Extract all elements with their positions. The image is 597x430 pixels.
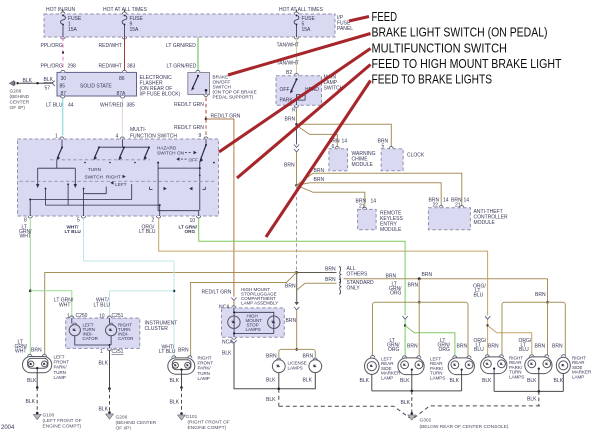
MFS interior: position dashed guides [50,159,150,161]
svg-text:87: 87 [61,91,67,97]
svg-text:30: 30 [61,76,67,82]
svg-text:LAMP: LAMP [572,375,584,380]
svg-text:14: 14 [342,139,348,145]
svg-text:BRN: BRN [285,117,296,123]
annotation line MULTIFUNCTION SWITCH [219,49,371,153]
wire BLK cluster to G206 [99,350,114,419]
node junction BRN modules [295,184,298,187]
wire WHT/LT BLU MFS pin5 down [65,218,175,357]
svg-text:14: 14 [371,199,377,205]
head lamp switch S2 [276,70,322,114]
svg-text:14: 14 [464,198,470,204]
wire ORG/LT BLU MFS pin2 to rear [139,218,488,316]
svg-text:BRN: BRN [314,177,325,183]
wire BLK dashed right rear to bus [527,391,539,406]
wire BRN to clock [297,124,394,149]
svg-text:ORG: ORG [185,229,196,234]
svg-text:BLK: BLK [222,351,232,357]
right front park/turn lamp [159,345,213,381]
MFS interior: lower contacts and buses [29,183,205,216]
svg-text:BRN: BRN [408,283,419,289]
svg-text:MULTI-: MULTI- [130,127,147,133]
lamp left rear side marker [365,355,402,380]
svg-text:BLK: BLK [401,400,411,406]
svg-text:BLK: BLK [44,77,54,83]
svg-text:BRN: BRN [314,168,325,174]
wire BLK dashed left rear to G302 [401,391,412,413]
svg-text:B2: B2 [286,70,292,76]
svg-text:BRN: BRN [284,163,295,169]
wire RED/LT GRN to MFS pin 9 [174,119,206,135]
high mount feed connector NCA [202,290,237,311]
wire BLK license grounds [266,373,315,391]
svg-text:SOLID STATE: SOLID STATE [80,84,112,90]
wire RED/LT GRN branch to high mount [206,113,241,296]
svg-text:BRN: BRN [457,344,468,350]
svg-text:BLK: BLK [99,407,109,413]
high mount ground pin NCA [222,333,237,356]
anti-theft controller module M4 [428,208,508,230]
wire BRN right rear distribution [502,279,565,356]
multifunction switch S3 [18,127,219,224]
remote keyless entry module M3 [358,209,404,233]
svg-text:BRN: BRN [325,267,336,273]
svg-text:87A: 87A [117,91,127,97]
svg-text:C251: C251 [112,349,124,355]
annotation line FEED TO BRAKE LIGHTS [266,81,371,238]
node junction WHT/LT BLU [173,290,176,293]
warning chime module M1 [329,149,376,171]
svg-text:BLK: BLK [99,361,109,367]
svg-text:WHT: WHT [20,234,31,240]
svg-text:OFF: OFF [189,158,199,163]
lamp right turn indicator [106,318,135,341]
svg-text:(BEHIND CENTER: (BEHIND CENTER [116,420,157,426]
svg-text:ONLY: ONLY [347,286,361,292]
svg-text:RED/WHT: RED/WHT [99,43,122,49]
ground bus dashed to G302 (left half) [279,406,410,418]
svg-text:LAMPS: LAMPS [509,375,524,380]
wire BLK left front lamp to G100 [26,373,42,420]
svg-text:LAMPS: LAMPS [430,376,445,381]
wire BRN standard only [297,277,374,294]
svg-text:LT GRN/RED: LT GRN/RED [166,43,196,49]
svg-text:85: 85 [60,83,66,89]
svg-text:I/P FUSE BLOCK): I/P FUSE BLOCK) [140,92,181,98]
svg-text:LAMP ASSEMBLY: LAMP ASSEMBLY [241,300,278,305]
svg-text:R: R [292,108,296,114]
svg-text:BLK: BLK [482,378,492,384]
svg-text:(LEFT FRONT OF: (LEFT FRONT OF [43,418,82,424]
svg-text:ORG: ORG [439,347,451,353]
svg-text:CLUSTER: CLUSTER [145,326,169,332]
svg-text:SWITCH: SWITCH [157,151,176,156]
svg-text:BRN: BRN [31,348,42,354]
svg-text:CLOCK: CLOCK [407,153,425,159]
svg-text:BLK: BLK [303,377,313,383]
svg-text:G206: G206 [116,415,128,421]
wire BLK dashed license to ground bus [266,389,279,407]
svg-text:BLK: BLK [23,78,33,84]
svg-text:RIGHT: RIGHT [106,175,121,180]
svg-text:BLK: BLK [554,378,564,384]
cluster ground wiring [75,336,124,355]
lamp license (right) [309,358,322,373]
wire BRN all others [297,266,369,283]
svg-text:WHT: WHT [59,303,70,309]
annotation texts [372,10,562,87]
wire BRN to anti-theft pin 21 [297,168,470,209]
svg-text:BLK: BLK [266,377,276,383]
instrument cluster assembly [66,313,178,348]
wire LT GRN/ORG branch to 2nd left park/turn lamp [405,326,455,358]
svg-text:PPL/ORG: PPL/ORG [41,43,63,49]
svg-text:LAMPS: LAMPS [288,366,303,371]
clock module M2 [381,149,425,171]
svg-text:LT BLU: LT BLU [65,229,82,234]
wire BRN left rear distribution [373,279,469,357]
wire RED/LT GRN brake switch to junction [174,98,206,120]
svg-text:ENGINE COMPT): ENGINE COMPT) [188,425,227,430]
svg-text:OFF: OFF [280,87,290,93]
svg-text:PEDAL SUPPORT): PEDAL SUPPORT) [213,95,254,100]
wire BRN head lamp switch R down [285,108,297,124]
MFS interior: hazard switch [157,140,215,217]
electronic flasher U1 (solid state) [57,70,137,98]
svg-text:TAN/WHT: TAN/WHT [277,43,299,49]
svg-text:BRN: BRN [325,277,336,283]
lamp high mount stop (right bulb) [268,316,280,328]
wire TAN/WHT fuse5 to head lamp switch [277,37,299,74]
MFS interior: turn switch [56,140,150,188]
svg-text:RED/LT GRN: RED/LT GRN [174,125,204,131]
svg-text:ON: ON [177,151,184,156]
wire BRN to remote keyless entry [297,185,377,209]
connector in ORG/LT BLU rear wire [485,316,490,356]
wire PPL/ORG fuse1 to flasher pin 30 [41,37,77,72]
svg-text:RED/LT GRN: RED/LT GRN [202,290,232,296]
svg-text:14: 14 [443,198,449,204]
lamp left rear park/turn (inner) [398,356,445,381]
svg-text:LT BLU: LT BLU [139,229,156,235]
svg-text:BRN: BRN [285,284,296,290]
MFS interior: pin1 contact tee [36,159,77,188]
svg-text:BLK: BLK [400,378,410,384]
wire LT GRN/WHT branch to cluster [30,291,74,318]
svg-text:15A: 15A [68,27,78,33]
svg-text:44: 44 [68,103,74,109]
svg-text:BLK: BLK [266,397,276,403]
svg-text:G206: G206 [10,89,22,95]
wire WHT/RED flasher 87A to MFS pin 4 [100,98,135,135]
svg-text:BLU: BLU [474,347,484,353]
wire BRN right front park feed [191,273,297,358]
node junction RED/LT GRN [205,118,208,121]
svg-text:BRN: BRN [266,354,277,360]
svg-text:MODULE: MODULE [380,227,402,233]
svg-text:LAMPS: LAMPS [246,327,261,332]
svg-text:PPL/ORG: PPL/ORG [41,64,63,70]
svg-text:BLK: BLK [170,378,180,384]
svg-text:383: 383 [127,64,136,70]
svg-text:FEED TO HIGH MOUNT BRAKE LIGHT: FEED TO HIGH MOUNT BRAKE LIGHT [372,57,562,71]
wire WHT/LT BLU branch to cluster [94,291,175,317]
wire labels above right rear lamps [488,338,563,353]
svg-text:(BELOW REAR OF CENTER CONSOLE): (BELOW REAR OF CENTER CONSOLE) [420,424,509,430]
wire BLK right front lamp to G101 [170,374,186,420]
svg-text:15A: 15A [302,27,312,33]
svg-text:FEED: FEED [372,10,398,24]
svg-text:ORG: ORG [388,347,400,353]
wire LT GRN/WHT MFS pin8 down [19,218,32,356]
svg-text:OTHERS: OTHERS [347,272,369,278]
svg-text:BRN: BRN [407,344,418,350]
svg-text:MODULE: MODULE [474,220,496,226]
svg-text:(BEHIND: (BEHIND [10,94,30,100]
svg-text:BRN: BRN [552,344,563,350]
wire BLK high mount ground [234,343,279,389]
lamp license (left) [272,358,285,373]
wire stub to fuse 1 [62,10,64,15]
svg-text:MULTIFUNCTION SWITCH: MULTIFUNCTION SWITCH [372,41,508,55]
svg-text:BRN: BRN [535,292,546,298]
wire BLK left rear grounds [360,375,462,393]
svg-text:PANEL: PANEL [337,26,353,32]
svg-text:LT BLU: LT BLU [159,349,176,355]
wire ORG/LT BLU branch to 2nd right park/turn lamp [488,326,532,357]
svg-text:BRAKE LIGHT SWITCH (ON PEDAL): BRAKE LIGHT SWITCH (ON PEDAL) [372,26,548,40]
wire stub to fuse 9 [124,10,126,15]
license lamps feed split [266,348,315,359]
svg-text:G302: G302 [420,418,432,424]
svg-text:HOT IN RUN: HOT IN RUN [46,7,75,13]
node junction brake feed split [295,271,298,274]
ground G206 at flasher pin 85 [10,77,56,111]
svg-text:CATOR: CATOR [83,336,99,341]
high mount stop/luggage lamp assembly [222,287,285,337]
flasher location label [140,75,181,98]
lamp left turn indicator [69,318,98,341]
svg-text:WHT: WHT [15,349,26,355]
wire (unused feed) dashed gray vertical [296,185,298,272]
svg-text:CENTER: CENTER [10,100,30,106]
annotation line BRAKE LIGHT SWITCH [228,34,371,76]
svg-text:BRN: BRN [386,274,397,280]
wire ORG/LT BLU label (upper) [473,284,486,299]
high mount internal loop [233,308,274,335]
svg-text:OF I/P): OF I/P) [116,426,132,430]
fuse F1 15A [61,12,82,39]
svg-text:BRN: BRN [303,354,314,360]
I/P fuse panel box [44,14,353,37]
svg-text:2004: 2004 [1,425,15,430]
svg-text:LEFT: LEFT [115,182,127,187]
wire RED/WHT fuse9 to flasher pin 86 [99,37,136,72]
wire BRN rear feed merged [344,272,548,296]
svg-text:2: 2 [152,218,155,224]
annotation line FEED TO HIGH MOUNT [237,65,371,179]
brake switch label [213,75,257,100]
lamp high mount stop (left bulb) [228,316,240,328]
wire LT BLU flasher 87 to MFS pin 1 [46,98,74,135]
svg-text:WHT/RED: WHT/RED [100,103,124,109]
ground bus dashed to G302 (right half) [414,406,540,418]
wire BRN to anti-theft pin 22 [297,177,449,209]
svg-text:CATOR: CATOR [118,336,134,341]
svg-text:MODULE: MODULE [352,162,374,168]
svg-text:RED/LT GRN: RED/LT GRN [174,102,204,108]
wire BLK right rear grounds [482,374,564,393]
svg-text:BLK: BLK [27,378,37,384]
svg-text:BLU: BLU [474,293,484,299]
svg-text:8: 8 [24,218,27,224]
head lamp switch label [324,75,344,92]
fuse F5 15A [294,12,315,39]
svg-text:LAMP: LAMP [198,376,210,381]
ground G302 [408,412,509,430]
svg-text:ENGINE COMPT): ENGINE COMPT) [43,424,82,430]
svg-text:298: 298 [68,64,77,70]
high mount lamps text [246,314,263,333]
svg-text:5: 5 [77,218,80,224]
wire LT GRN/ORG MFS pin10 to rear [179,218,406,316]
lamp right rear park/turn (outer) [525,355,552,374]
connector in LT GRN/ORG rear wire [403,316,408,357]
wire BRN to warning chime [297,126,348,150]
fuse F9 15A [122,12,143,39]
svg-text:385: 385 [127,103,136,109]
svg-text:BLK: BLK [170,400,180,406]
svg-text:BRN: BRN [286,318,297,324]
lamp right rear side marker [556,355,592,380]
svg-text:1: 1 [100,349,103,355]
svg-text:BLK: BLK [26,399,36,405]
svg-text:BLK: BLK [360,378,370,384]
ground G206 (cluster) label [116,415,157,430]
wire labels above left rear lamps [387,338,487,353]
connector C in BRN vertical [294,124,299,185]
svg-text:LT GRN/RED: LT GRN/RED [167,64,197,70]
svg-text:ORG: ORG [390,290,402,296]
svg-text:BLK: BLK [527,397,537,403]
ground G100 label [43,413,82,430]
wire LT GRN/RED fuse panel to brake switch [166,37,198,70]
svg-text:G100: G100 [43,413,55,419]
wire BRN front park feed (left) [45,273,297,357]
svg-text:LAMP: LAMP [381,376,393,381]
svg-text:OF I/P): OF I/P) [10,105,26,111]
lamp left rear park/turn (outer) [448,356,474,375]
svg-text:10: 10 [190,218,196,224]
left front park/turn lamp [15,340,70,380]
lamp right rear park/turn (inner) [481,355,525,380]
brake on/off switch S1 [188,70,210,96]
svg-text:SWITCH: SWITCH [85,175,104,180]
svg-text:RED/WHT: RED/WHT [99,64,122,70]
svg-text:57: 57 [45,86,51,92]
svg-text:LAMP: LAMP [54,375,66,380]
svg-text:RED/LT GRN: RED/LT GRN [211,113,241,119]
svg-text:BLK: BLK [450,378,460,384]
svg-text:BRN: BRN [488,344,499,350]
ground G101 label [186,414,230,430]
svg-text:BRN: BRN [422,272,433,278]
svg-text:9: 9 [199,133,202,139]
svg-text:FEED TO BRAKE LIGHTS: FEED TO BRAKE LIGHTS [372,73,493,87]
svg-text:(RIGHT FRONT OF: (RIGHT FRONT OF [188,420,230,426]
svg-text:TURN: TURN [88,167,101,172]
wire BRN license feed vertical with connector [294,273,299,350]
svg-text:G101: G101 [186,414,198,420]
svg-text:BRN: BRN [178,348,189,354]
svg-text:86: 86 [119,76,125,82]
svg-text:HOT AT ALL TIMES: HOT AT ALL TIMES [279,7,324,13]
svg-text:BLU: BLU [519,347,529,353]
wire stub to fuse 5 [296,10,298,15]
svg-text:LT BLU: LT BLU [46,103,63,109]
svg-text:BRN: BRN [535,344,546,350]
annotation line FEED [349,17,369,22]
license lamps text [288,361,307,371]
svg-text:LT BLU: LT BLU [94,303,111,309]
node junction BRN feed [295,123,298,126]
svg-text:15A: 15A [130,27,140,33]
svg-text:BLK: BLK [527,378,537,384]
node junction LT GRN/WHT [29,289,32,292]
